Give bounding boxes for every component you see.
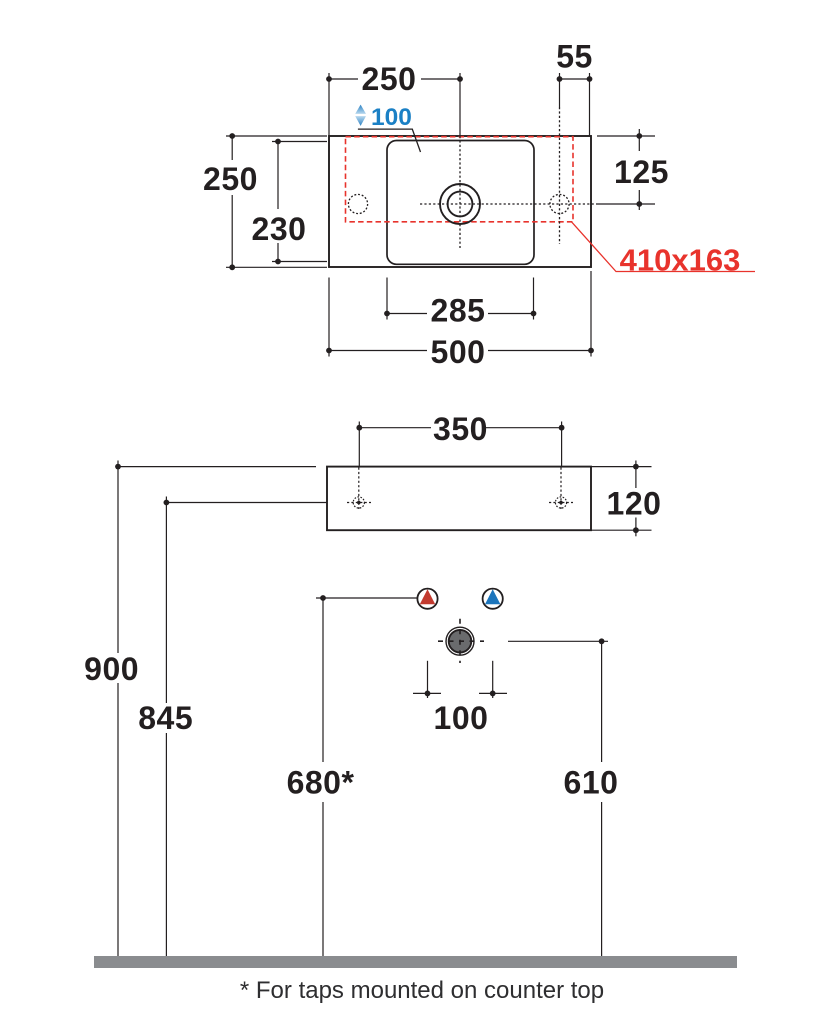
- drain (front view): [446, 627, 474, 655]
- dimension 845 (floor to mounting holes): [166, 497, 327, 957]
- dimension 500 (basin width): [329, 271, 591, 357]
- svg-text:500: 500: [431, 334, 486, 370]
- cold water symbol (blue triangle): [483, 589, 503, 609]
- svg-text:250: 250: [203, 161, 258, 197]
- svg-text:120: 120: [607, 486, 662, 522]
- svg-text:* For taps mounted on counter: * For taps mounted on counter top: [240, 977, 604, 1004]
- dimension 230 (left, bowl depth): [272, 142, 327, 262]
- svg-text:230: 230: [252, 211, 307, 247]
- svg-text:350: 350: [433, 411, 488, 447]
- dimension 350 (hole spacing): [359, 422, 561, 467]
- dimension 610 (floor to drain): [508, 641, 608, 956]
- svg-text:845: 845: [138, 700, 193, 736]
- dimension 680* (floor to tap supply): [316, 598, 417, 956]
- dimension 900 (floor to rim): [118, 461, 316, 957]
- horizontal centerline (dotted): [420, 203, 597, 205]
- dimension 125 (top edge to hole centerline): [597, 129, 655, 210]
- right mounting hole: [549, 468, 573, 510]
- left mounting hole: [347, 468, 371, 510]
- svg-text:680*: 680*: [287, 765, 355, 801]
- right tap hole (dotted): [550, 194, 569, 213]
- dimension 120 (basin height): [591, 461, 652, 537]
- svg-text:100: 100: [434, 700, 489, 736]
- dimension 285 (bowl width): [387, 278, 534, 320]
- dimension 250 (left, basin depth): [226, 136, 327, 267]
- red leader line for 410x163: [572, 222, 756, 272]
- dimension 55 (top, right hole to basin right edge): [560, 73, 590, 136]
- drain outer circle: [440, 184, 480, 224]
- svg-text:125: 125: [614, 154, 669, 190]
- svg-text:55: 55: [556, 39, 593, 75]
- svg-text:410x163: 410x163: [620, 243, 741, 278]
- floor bar: [94, 956, 737, 968]
- dimension 100 (tap spacing): [413, 661, 507, 698]
- svg-text:285: 285: [431, 293, 486, 329]
- red dashed rectangle 410x163: [346, 137, 574, 222]
- drain inner circle: [448, 192, 473, 217]
- svg-text:610: 610: [564, 765, 619, 801]
- basin outline (top view): [329, 136, 591, 267]
- hot water symbol (red triangle): [417, 589, 437, 609]
- svg-text:900: 900: [84, 651, 139, 687]
- vertical centerline through drain (dotted): [459, 136, 461, 248]
- dimension 250 (top, basin left edge to drain center): [329, 73, 460, 136]
- basin outline (front view): [327, 467, 591, 531]
- leader from 100 to bowl: [358, 129, 421, 152]
- svg-text:100: 100: [371, 104, 412, 131]
- blue updown arrow icon: [355, 105, 366, 114]
- svg-text:250: 250: [362, 61, 417, 97]
- inner bowl: [387, 141, 534, 265]
- left tap hole (dotted): [348, 194, 367, 213]
- vertical centerline through right hole (dotted): [559, 107, 561, 244]
